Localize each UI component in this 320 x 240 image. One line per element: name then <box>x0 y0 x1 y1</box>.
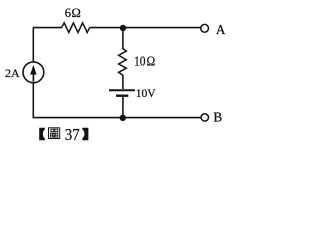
resistor R2 10ohm vertical zigzag <box>119 49 127 76</box>
wire left vertical lower (current source to bottom corner) <box>32 83 34 119</box>
wire top-left segment (corner to resistor) <box>33 27 62 29</box>
caption left lenticular bracket <box>39 128 45 141</box>
wire bottom (corner to terminal B) <box>33 117 201 119</box>
caption right lenticular bracket <box>82 128 88 141</box>
svg-text:2A: 2A <box>5 66 20 80</box>
svg-text:37: 37 <box>65 125 80 144</box>
svg-text:10V: 10V <box>136 88 157 100</box>
terminal B circle <box>201 114 208 121</box>
junction node top (dot) <box>120 25 126 31</box>
wire middle branch upper (node to 10ohm resistor) <box>122 28 124 49</box>
current source arrow (up) <box>32 72 34 82</box>
wire middle (10ohm resistor to battery) <box>122 75 124 89</box>
caption glyph "tu" (figure) box character <box>49 128 60 139</box>
svg-text:10Ω: 10Ω <box>134 54 155 69</box>
wire left vertical upper (corner to current source) <box>32 28 34 62</box>
svg-text:6Ω: 6Ω <box>65 6 81 20</box>
battery V1 long plate (+) <box>109 89 135 91</box>
wire middle branch lower (battery to bottom node) <box>122 97 124 118</box>
junction node bottom (dot) <box>120 115 126 121</box>
svg-text:A: A <box>216 22 226 37</box>
resistor R1 6ohm zigzag <box>62 23 90 33</box>
current source I1 circle <box>23 62 44 83</box>
terminal A circle <box>201 24 209 32</box>
wire top (resistor to terminal A) <box>90 27 201 29</box>
svg-text:B: B <box>213 109 222 124</box>
battery V1 short plate (-) <box>116 94 128 96</box>
